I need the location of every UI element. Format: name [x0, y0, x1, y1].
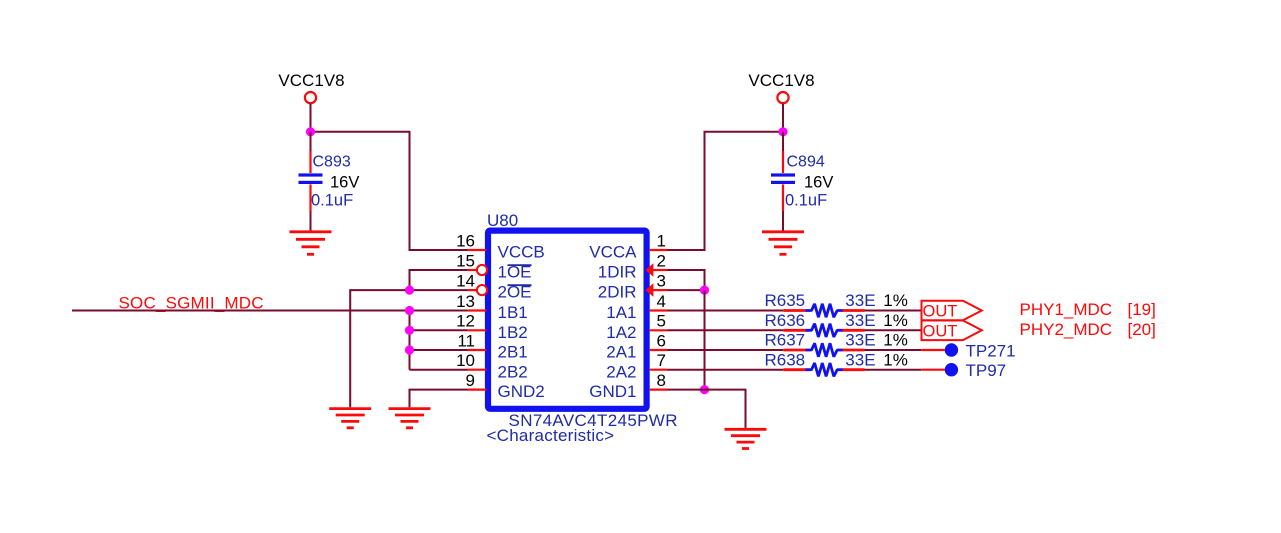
pin label 1B1 (pin 13): [498, 303, 528, 322]
pin 3 stub with direction arrow: [645, 283, 667, 297]
svg-text:16V: 16V: [330, 174, 359, 192]
pin number 15: [456, 251, 475, 270]
power symbol VCC1V8 (right): [748, 71, 814, 103]
svg-text:SOC_SGMII_MDC: SOC_SGMII_MDC: [119, 293, 264, 312]
pin label GND2 (pin 9): [498, 382, 545, 401]
capacitor C894 16V 0.1uF: [771, 132, 833, 231]
capacitor C893 16V 0.1uF: [299, 132, 360, 231]
net label PHY1_MDC [19]: [1020, 300, 1156, 319]
svg-text:2B2: 2B2: [498, 362, 528, 381]
test point TP97 lead: [921, 369, 945, 371]
svg-text:3: 3: [657, 272, 666, 291]
wire resistor R638 to test point: [865, 369, 922, 371]
svg-text:1%: 1%: [883, 331, 908, 350]
pin label GND1 (pin 8): [589, 382, 636, 401]
pin 6 stub: [650, 349, 668, 351]
svg-text:GND1: GND1: [589, 382, 636, 401]
resistor R637 lead left: [783, 349, 806, 352]
wire resistor R636 to OUT port: [865, 329, 922, 331]
wire resistor R635 to OUT port: [865, 310, 922, 312]
pin label 2OE (pin 14): [498, 283, 532, 302]
wire pin 3 2DIR: [668, 289, 705, 291]
svg-text:2A1: 2A1: [606, 343, 636, 362]
pin number 8: [657, 371, 666, 390]
svg-text:33E: 33E: [845, 331, 875, 350]
pin number 2: [657, 251, 666, 270]
wire pin 9 GND2 to ground: [410, 390, 468, 408]
pin 4 stub: [650, 309, 668, 311]
svg-text:TP271: TP271: [966, 341, 1016, 360]
svg-text:11: 11: [457, 331, 475, 350]
ground for OE pins: [329, 409, 371, 428]
pin label 2DIR (pin 3): [598, 283, 637, 302]
svg-text:0.1uF: 0.1uF: [785, 192, 827, 210]
wire VCC1V8 right vertical: [782, 104, 784, 132]
pin 12 stub: [468, 329, 487, 331]
svg-text:VCC1V8: VCC1V8: [748, 71, 814, 90]
pin 10 stub: [468, 369, 487, 371]
port OUT PHY2_MDC: [922, 321, 982, 341]
svg-text:1DIR: 1DIR: [598, 263, 637, 282]
svg-text:2B1: 2B1: [498, 343, 528, 362]
pin number 1: [657, 231, 666, 250]
svg-text:16: 16: [456, 231, 475, 250]
pin number 13: [456, 292, 475, 311]
power symbol VCC1V8 (left): [278, 71, 344, 103]
pin 14 stub with inversion bubble: [468, 285, 488, 295]
svg-text:33E: 33E: [845, 311, 875, 330]
svg-text:PHY2_MDC: PHY2_MDC: [1020, 320, 1113, 339]
pin number 7: [657, 351, 666, 370]
pin label VCCB (pin 16): [498, 243, 545, 262]
svg-text:13: 13: [456, 292, 475, 311]
svg-text:C893: C893: [313, 154, 351, 171]
ground for GND1: [725, 429, 767, 448]
resistor R638 lead left: [783, 368, 806, 371]
svg-text:33E: 33E: [845, 350, 875, 369]
resistor R636 lead right: [843, 329, 865, 332]
pin 15 stub with inversion bubble: [468, 265, 488, 275]
wire pin 10 2B2: [410, 369, 468, 371]
svg-text:R638: R638: [765, 350, 806, 369]
wire B-side bus vertical: [409, 311, 411, 370]
test point TP271 lead: [921, 349, 945, 351]
pin 7 stub: [650, 369, 668, 371]
pin label 1A1 (pin 4): [606, 303, 636, 322]
pin 9 stub: [468, 389, 487, 391]
svg-text:[20]: [20]: [1128, 320, 1156, 339]
svg-text:12: 12: [456, 312, 475, 331]
port OUT PHY1_MDC: [922, 301, 982, 321]
svg-text:OUT: OUT: [923, 303, 958, 321]
svg-text:8: 8: [657, 371, 666, 390]
wire pin 12 1B2: [410, 329, 468, 331]
svg-text:9: 9: [466, 371, 475, 390]
pin 16 stub: [468, 249, 487, 251]
pin label 1DIR (pin 2): [598, 263, 637, 282]
pin number 5: [657, 312, 666, 331]
pin 8 stub: [650, 389, 668, 391]
pin number 3: [657, 272, 666, 291]
svg-text:OUT: OUT: [923, 322, 958, 340]
pin label 1A2 (pin 5): [606, 323, 636, 342]
net label PHY2_MDC [20]: [1020, 320, 1156, 339]
svg-text:TP97: TP97: [966, 361, 1007, 380]
resistor R637 33E 1%: [765, 331, 908, 357]
pin 5 stub: [650, 329, 668, 331]
svg-text:1%: 1%: [883, 311, 908, 330]
resistor R635 lead left: [783, 309, 806, 312]
pin 1 stub: [650, 249, 668, 251]
node junction right VCC: [778, 127, 787, 136]
svg-text:5: 5: [657, 312, 666, 331]
svg-text:15: 15: [456, 251, 475, 270]
svg-text:1A1: 1A1: [606, 303, 636, 322]
wire VCC1V8 left to pin 16 VCCB: [311, 132, 468, 250]
svg-text:2DIR: 2DIR: [598, 283, 637, 302]
IC U80 SN74AVC4T245PWR body: [487, 211, 647, 409]
pin number 12: [456, 312, 475, 331]
node junction GND1 row: [700, 385, 709, 394]
resistor R636 lead left: [783, 329, 806, 332]
svg-text:U80: U80: [487, 211, 518, 230]
wire VCC1V8 left vertical: [310, 104, 312, 132]
svg-text:7: 7: [657, 351, 666, 370]
svg-text:[19]: [19]: [1128, 300, 1156, 319]
svg-text:4: 4: [657, 292, 666, 311]
wire SOC_SGMII_MDC to pin 13: [72, 310, 468, 312]
resistor R637 lead right: [843, 349, 865, 352]
pin label 2B2 (pin 10): [498, 362, 528, 381]
node junction pin13 row: [405, 306, 414, 315]
svg-text:33E: 33E: [845, 291, 875, 310]
svg-text:1B2: 1B2: [498, 323, 528, 342]
ground for GND2: [389, 409, 431, 428]
node junction DIR: [700, 286, 709, 295]
test point TP271: [945, 341, 1015, 360]
resistor R635 33E 1%: [765, 291, 908, 317]
svg-text:0.1uF: 0.1uF: [311, 192, 353, 210]
svg-text:1A2: 1A2: [606, 323, 636, 342]
node junction pin14 row: [405, 286, 414, 295]
pin number 14: [456, 272, 475, 291]
test point TP97: [945, 361, 1006, 380]
wire VCC1V8 right to pin 1 VCCA: [668, 132, 784, 250]
svg-text:R636: R636: [765, 311, 806, 330]
svg-text:R635: R635: [765, 291, 806, 310]
svg-text:VCCB: VCCB: [498, 243, 545, 262]
wire pin 15 1OE down: [410, 270, 468, 290]
pin label 2A2 (pin 7): [606, 362, 636, 381]
svg-text:1%: 1%: [883, 291, 908, 310]
wire pin 2 1DIR down: [668, 270, 705, 290]
svg-text:16V: 16V: [804, 174, 833, 192]
svg-text:1%: 1%: [883, 350, 908, 369]
pin 13 stub: [468, 309, 487, 311]
resistor R638 33E 1%: [765, 350, 908, 376]
ground for C893: [290, 232, 332, 255]
resistor R638 lead right: [843, 368, 865, 371]
net label SOC_SGMII_MDC: [119, 293, 264, 312]
svg-text:PHY1_MDC: PHY1_MDC: [1020, 300, 1113, 319]
pin 11 stub: [468, 349, 487, 351]
pin label 2A1 (pin 6): [606, 343, 636, 362]
wire pin 11 2B1: [410, 349, 468, 351]
pin label VCCA (pin 1): [589, 243, 637, 262]
pin number 16: [456, 231, 475, 250]
pin 2 stub with direction arrow: [645, 263, 667, 277]
label SN74AVC4T245PWR: [509, 411, 678, 430]
wire pin 4 to resistor R635: [668, 310, 784, 312]
wire DIR bus vertical to pin 8 row: [704, 290, 706, 390]
resistor R636 33E 1%: [765, 311, 908, 337]
node junction pin11 row: [405, 345, 414, 354]
wire pin 5 to resistor R636: [668, 329, 784, 331]
label &lt;Characteristic&gt;: [487, 426, 615, 445]
wire resistor R637 to test point: [865, 349, 922, 351]
svg-text:VCCA: VCCA: [589, 243, 637, 262]
svg-text:2A2: 2A2: [606, 362, 636, 381]
pin number 9: [466, 371, 475, 390]
svg-text:6: 6: [657, 331, 666, 350]
svg-text:1B1: 1B1: [498, 303, 528, 322]
resistor R635 lead right: [843, 309, 865, 312]
pin number 6: [657, 331, 666, 350]
pin number 11: [457, 331, 475, 350]
wire pin 7 to resistor R638: [668, 369, 784, 371]
pin label 2B1 (pin 11): [498, 343, 528, 362]
pin label 1B2 (pin 12): [498, 323, 528, 342]
svg-text:1: 1: [657, 231, 666, 250]
wire pin 14 2OE to ground: [350, 290, 467, 407]
svg-text:GND2: GND2: [498, 382, 545, 401]
wire GND1 to ground: [705, 390, 746, 428]
svg-text:10: 10: [456, 351, 475, 370]
svg-text:VCC1V8: VCC1V8: [278, 71, 344, 90]
wire pin 6 to resistor R637: [668, 349, 784, 351]
wire pin 8 GND1: [668, 389, 705, 391]
svg-text:2: 2: [657, 251, 666, 270]
svg-text:<Characteristic>: <Characteristic>: [487, 426, 615, 445]
svg-text:14: 14: [456, 272, 475, 291]
pin number 10: [456, 351, 475, 370]
ground for C894: [762, 232, 804, 255]
node junction pin12 row: [405, 326, 414, 335]
svg-text:C894: C894: [787, 154, 825, 171]
svg-text:R637: R637: [765, 331, 806, 350]
node junction left VCC: [306, 127, 315, 136]
pin label 1OE (pin 15): [498, 263, 532, 282]
pin number 4: [657, 292, 666, 311]
